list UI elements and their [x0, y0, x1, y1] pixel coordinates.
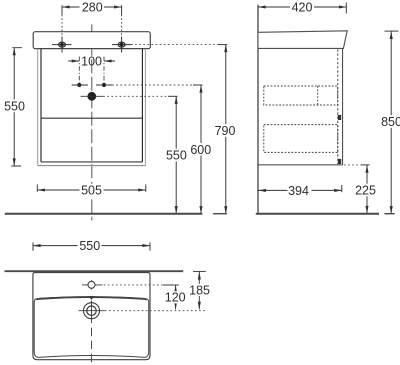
- svg-text:505: 505: [81, 184, 102, 198]
- svg-text:550: 550: [4, 100, 25, 114]
- svg-text:600: 600: [190, 143, 211, 157]
- svg-text:550: 550: [166, 149, 187, 163]
- svg-text:100: 100: [81, 54, 102, 68]
- svg-text:280: 280: [82, 0, 103, 14]
- svg-text:850: 850: [381, 115, 400, 129]
- svg-text:185: 185: [189, 283, 210, 297]
- svg-text:550: 550: [79, 239, 100, 253]
- svg-text:420: 420: [292, 0, 313, 14]
- svg-text:790: 790: [215, 124, 236, 138]
- svg-text:394: 394: [288, 184, 309, 198]
- svg-text:225: 225: [355, 184, 376, 198]
- svg-text:120: 120: [165, 291, 186, 305]
